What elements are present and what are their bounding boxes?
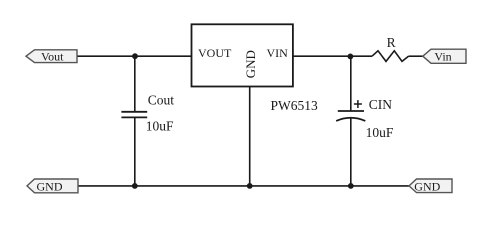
- svg-text:GND: GND: [414, 179, 440, 193]
- svg-text:VOUT: VOUT: [198, 46, 232, 60]
- junction bottom middle: [247, 183, 253, 189]
- junction bottom left: [132, 183, 138, 189]
- port tag Vout: [26, 50, 77, 63]
- junction node B top right: [348, 54, 354, 60]
- svg-text:R: R: [387, 35, 396, 50]
- capacitor Cout plates: [121, 111, 147, 113]
- capacitor C-IN curved bottom plate: [336, 118, 365, 121]
- svg-text:VIN: VIN: [267, 46, 289, 60]
- junction node A top left: [132, 53, 138, 59]
- svg-text:Cout: Cout: [148, 92, 175, 107]
- resistor R: [372, 51, 409, 62]
- svg-text:GND: GND: [37, 179, 63, 193]
- wire box VIN to node B: [293, 55, 372, 57]
- capacitor C-IN top plate: [338, 110, 364, 112]
- wire right vertical node B to CIN: [350, 56, 352, 111]
- wire left vertical node A to Cout: [134, 56, 136, 112]
- svg-text:GND: GND: [243, 50, 258, 78]
- wire bottom ground rail: [78, 185, 410, 187]
- wire Vout to node A: [77, 55, 192, 57]
- wire resistor to Vin tag: [409, 55, 424, 57]
- port tag GND left: [27, 179, 78, 193]
- wire CIN to bottom rail: [350, 118, 352, 186]
- wire GND pin of U1 to bottom rail: [249, 87, 251, 186]
- svg-text:CIN: CIN: [369, 97, 393, 112]
- port tag GND right: [409, 179, 452, 193]
- svg-text:PW6513: PW6513: [271, 98, 319, 113]
- svg-text:10uF: 10uF: [146, 119, 174, 134]
- svg-text:10uF: 10uF: [366, 125, 394, 140]
- svg-text:Vout: Vout: [41, 50, 64, 64]
- junction bottom right: [348, 183, 354, 189]
- port tag Vin: [423, 49, 466, 63]
- svg-text:Vin: Vin: [434, 50, 451, 64]
- wire Cout to bottom rail: [134, 117, 136, 185]
- polarity plus sign: [354, 103, 362, 105]
- op-amp U1 regulator box PW6513: [192, 24, 293, 86]
